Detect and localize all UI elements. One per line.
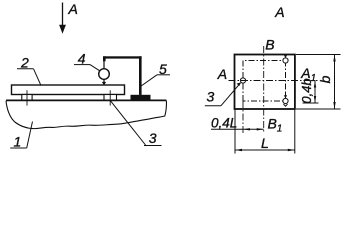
svg-text:3: 3: [207, 88, 215, 104]
dimension 0,4b: [303, 102, 319, 104]
support extension line (dash-dot below square): [242, 101, 244, 134]
plate outline (square, view A): [235, 55, 295, 110]
centerline B-B1 (vertical dash-dot): [263, 46, 265, 134]
stand arm: [103, 56, 141, 58]
dimension L: [234, 110, 236, 154]
arm left end stub (indicator holder): [103, 56, 106, 61]
svg-text:A: A: [274, 4, 284, 20]
support right centerline: [109, 90, 111, 105]
svg-text:4: 4: [78, 50, 86, 66]
dimension 0,4L: [211, 128, 264, 130]
svg-text:L: L: [261, 135, 269, 151]
indicator stand base 5 (filled): [131, 95, 151, 100]
v mark below bottom-right support: [284, 104, 288, 106]
arrow mark at bottom-right support: [284, 95, 287, 98]
svg-text:1: 1: [277, 124, 283, 135]
indicator mount stem: [103, 59, 105, 69]
svg-text:1: 1: [14, 133, 22, 149]
view-direction arrow A (left view): [59, 3, 66, 34]
plate 2 (measured part): [12, 85, 125, 95]
centerline A-A1 (horizontal dash-dot): [229, 80, 318, 82]
surface plate 1 top edge: [6, 99, 167, 101]
svg-text:B: B: [265, 36, 274, 52]
svg-text:3: 3: [149, 130, 157, 146]
support circle top right: [283, 58, 288, 63]
surface plate 1 broken outline (wavy): [6, 101, 166, 129]
svg-text:0,4L: 0,4L: [211, 115, 237, 130]
svg-text:A: A: [68, 1, 78, 17]
support locus rectangle (dash-dot): [243, 61, 286, 102]
support circle bottom right: [283, 98, 288, 103]
support circle left (3): [240, 78, 245, 83]
stand column: [139, 56, 142, 95]
indicator spindle: [103, 79, 105, 83]
dimension b: [296, 54, 341, 56]
support left (item 3): [22, 95, 32, 101]
support right (item 3): [104, 95, 117, 101]
svg-text:0,4b: 0,4b: [299, 78, 314, 103]
svg-text:2: 2: [20, 54, 29, 70]
arrow mark at top-right support: [284, 55, 287, 58]
svg-text:B: B: [268, 115, 277, 131]
svg-text:b: b: [317, 75, 333, 83]
dial indicator 4: [99, 69, 110, 80]
svg-text:A: A: [217, 66, 227, 82]
indicator contact tip: [102, 82, 106, 86]
support left centerline: [26, 90, 28, 105]
